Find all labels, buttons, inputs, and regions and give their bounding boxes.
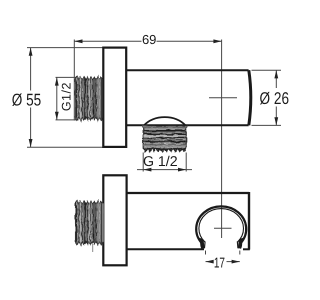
inlet thread (bottom view) [75, 201, 103, 245]
svg-text:17: 17 [214, 256, 225, 272]
extension line left of 69 [73, 40, 75, 121]
thread G1/2 arrows [55, 77, 59, 85]
pipe center tick [209, 97, 237, 99]
dimension D26 extension bottom [252, 124, 282, 126]
dimension 69 line [74, 40, 221, 42]
dimension D26 arrows [274, 70, 278, 78]
svg-text:Ø 26: Ø 26 [260, 89, 289, 108]
wall flange (bottom view) [103, 175, 126, 265]
holder center tick [214, 227, 232, 229]
outlet boss intersection curve [143, 117, 186, 126]
svg-text:69: 69 [142, 32, 156, 47]
dimension D26 extension top [252, 69, 282, 71]
dimension G 1/2 line [137, 169, 192, 171]
dimension D55 line [30, 48, 32, 148]
inlet thread root fill at flange junction (bottom view) [100, 203, 104, 242]
pipe end cap [249, 70, 251, 125]
dimension D26 line [275, 70, 277, 125]
thread G1/2 dimension extension lines [56, 76, 79, 78]
svg-text:Ø 55: Ø 55 [12, 90, 41, 109]
pipe body bottom edge [126, 124, 248, 126]
inlet thread (side view) [75, 77, 103, 121]
dimension D55 extension top [27, 47, 103, 49]
pipe body top edge [126, 69, 248, 71]
centerline through pipe and holder [221, 40, 223, 239]
svg-text:G 1/2: G 1/2 [143, 154, 178, 170]
dimension 17 line [206, 261, 240, 263]
thread G1/2 dimension line [56, 77, 58, 120]
dimension 17 arrows [206, 260, 214, 264]
holder right foot [240, 242, 241, 248]
outlet thread [143, 126, 186, 152]
holder body bottom edge right part [243, 248, 250, 250]
wall flange (side view) [103, 48, 126, 147]
holder body bottom edge left part [127, 248, 204, 250]
dimension D55 extension bottom [27, 146, 103, 148]
holder body top edge [127, 192, 249, 194]
dimension G 1/2 arrows [143, 168, 151, 172]
handset holder ring inner [199, 209, 244, 243]
dimension G 1/2 extension lines [142, 153, 144, 172]
svg-text:G1/2: G1/2 [60, 82, 74, 111]
handset holder ring outer [196, 206, 246, 243]
thread runout mark [92, 244, 94, 252]
holder body right end [248, 192, 250, 250]
dimension D55 arrows [29, 48, 33, 56]
holder left foot [201, 242, 202, 248]
dimension 17 extension lines [205, 251, 207, 255]
inlet thread root fill at flange junction [100, 79, 104, 118]
inlet thread end face [75, 78, 77, 120]
dimension 69 arrows [74, 39, 82, 43]
